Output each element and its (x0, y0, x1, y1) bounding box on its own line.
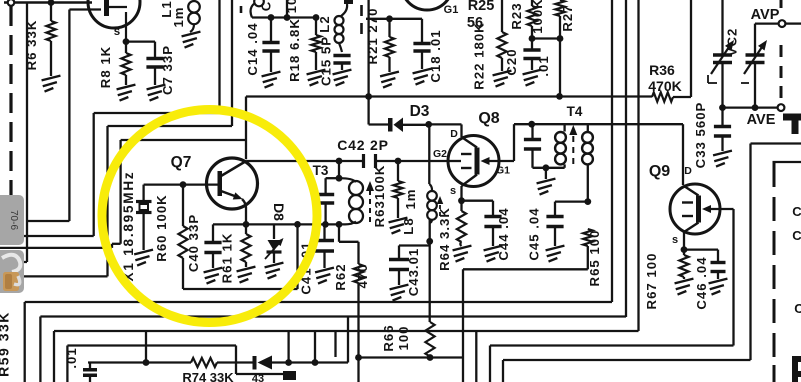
svg-text:100: 100 (396, 325, 411, 350)
svg-text:.01: .01 (64, 347, 79, 368)
svg-text:C15 5P: C15 5P (319, 36, 334, 86)
svg-text:R65 100: R65 100 (587, 230, 602, 287)
svg-text:R63100K: R63100K (372, 165, 387, 228)
svg-text:T3: T3 (313, 163, 329, 178)
svg-text:G1: G1 (496, 165, 510, 177)
svg-text:R59 33K: R59 33K (0, 311, 12, 377)
svg-text:D: D (684, 165, 692, 177)
svg-text:C44 .04: C44 .04 (496, 207, 511, 260)
svg-text:R74 33K: R74 33K (182, 370, 234, 382)
svg-text:100K: 100K (530, 0, 545, 34)
svg-text:R66: R66 (381, 324, 396, 351)
svg-text:D8: D8 (271, 203, 287, 221)
svg-text:s: s (114, 26, 120, 38)
svg-text:R21 270: R21 270 (365, 8, 380, 65)
svg-text:470K: 470K (648, 78, 681, 94)
svg-text:C: C (792, 228, 801, 243)
svg-text:C42 2P: C42 2P (337, 137, 389, 153)
svg-text:C14 .04: C14 .04 (245, 22, 260, 75)
svg-text:C7 33P: C7 33P (160, 45, 175, 95)
svg-text:C43.01: C43.01 (406, 248, 421, 297)
svg-text:C40 33P: C40 33P (186, 214, 201, 272)
svg-text:70-6: 70-6 (8, 210, 19, 230)
svg-text:C: C (259, 1, 274, 12)
svg-text:s: s (450, 185, 456, 197)
svg-text:s: s (672, 234, 678, 246)
svg-text:.01: .01 (536, 55, 551, 76)
svg-text:X1 18.895MHz: X1 18.895MHz (121, 171, 136, 282)
svg-text:R25: R25 (468, 0, 495, 14)
svg-text:T4: T4 (567, 104, 583, 119)
svg-text:R67 100: R67 100 (644, 253, 659, 310)
svg-text:1m: 1m (403, 188, 418, 209)
svg-text:G2: G2 (433, 148, 447, 160)
svg-text:C: C (794, 301, 801, 316)
svg-text:L2: L2 (317, 15, 332, 32)
svg-text:C18 .01: C18 .01 (428, 29, 443, 82)
svg-text:Q9: Q9 (649, 163, 670, 180)
svg-text:Q8: Q8 (478, 110, 499, 127)
svg-text:R23: R23 (509, 2, 524, 29)
svg-text:R64 3.3K: R64 3.3K (437, 207, 452, 271)
svg-text:D: D (450, 128, 458, 140)
svg-text:AVP: AVP (751, 7, 780, 23)
svg-text:C20: C20 (504, 48, 519, 75)
svg-text:C: C (792, 204, 801, 219)
svg-text:470: 470 (355, 263, 370, 288)
svg-text:R8 1K: R8 1K (98, 46, 113, 88)
svg-text:VC2: VC2 (725, 28, 740, 57)
svg-text:G1: G1 (444, 4, 459, 16)
svg-text:1m: 1m (171, 6, 186, 27)
svg-text:L8: L8 (401, 217, 416, 234)
svg-text:R61 1K: R61 1K (220, 233, 235, 284)
svg-text:D3: D3 (410, 103, 430, 120)
svg-text:R27: R27 (560, 4, 575, 31)
svg-text:Q7: Q7 (171, 154, 192, 171)
svg-text:C45 .04: C45 .04 (527, 207, 542, 260)
svg-text:C46 .04: C46 .04 (694, 256, 709, 309)
svg-text:R36: R36 (649, 62, 675, 78)
svg-text:AVE: AVE (747, 112, 776, 128)
svg-text:R18 6.8K: R18 6.8K (287, 18, 302, 82)
svg-text:R60 100K: R60 100K (154, 194, 169, 261)
svg-text:C33 560P: C33 560P (693, 102, 708, 169)
svg-text:R22 180K: R22 180K (472, 22, 487, 89)
svg-text:R62: R62 (333, 263, 348, 290)
